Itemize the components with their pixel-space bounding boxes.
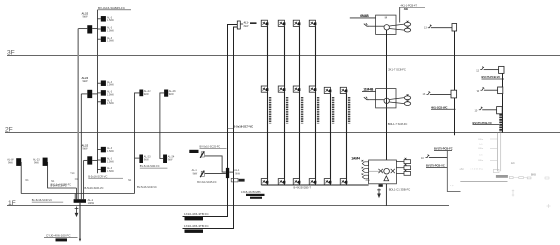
svg-text:BV-5x10-SC25-FC: BV-5x10-SC25-FC	[200, 146, 221, 149]
branch box AL3J-2	[101, 26, 106, 32]
delta symbol	[384, 176, 389, 181]
wire elevator 2	[205, 173, 226, 175]
tap-off square 1F-2	[278, 179, 284, 185]
wire feeder 1F cluster drop	[83, 160, 85, 199]
branch box AL1J-1	[101, 147, 106, 153]
svg-text:BKB: BKB	[531, 173, 536, 176]
tap-off square 3F-3	[293, 20, 299, 26]
tap box R2 c	[497, 107, 503, 114]
x mark out 2	[405, 164, 407, 166]
conduit label riser 3	[301, 97, 303, 124]
svg-text:9kW: 9kW	[34, 162, 40, 165]
branch box AL1J-3	[101, 167, 106, 173]
wire comb a	[74, 194, 76, 200]
faint branch 3	[490, 159, 498, 161]
motor feeder line 11M4B	[362, 90, 376, 92]
wire comb b	[75, 188, 77, 199]
conduit label riser 6	[348, 97, 350, 124]
svg-text:BV175-PCB-VC: BV175-PCB-VC	[482, 75, 501, 79]
wire AL-W drop	[20, 162, 22, 194]
svg-text:9kW: 9kW	[193, 173, 198, 175]
faint cross b	[547, 204, 551, 208]
wire AL2J to bus	[92, 93, 97, 95]
branch box AL1J-2	[101, 157, 106, 163]
svg-text:1.5kW: 1.5kW	[107, 160, 115, 163]
wire AL-2J branch to AL-23c	[135, 157, 140, 159]
wire motor out1 6M4B	[389, 24, 404, 26]
wire branch R1 low	[429, 157, 447, 159]
wire stub AL2J-1	[97, 82, 100, 84]
wire label feeder top	[97, 9, 131, 11]
CT bowtie left	[378, 169, 383, 173]
wire PCB riser up	[399, 7, 401, 23]
wire riser pair right	[183, 27, 238, 229]
tap-off square 2F-6	[340, 87, 346, 93]
wire 1AM4 right 3	[396, 172, 404, 174]
svg-text:BV-3x16-SGB45-FC: BV-3x16-SGB45-FC	[98, 6, 126, 10]
svg-text:YL4: YL4	[70, 173, 75, 175]
feeder symbol 1AM4 left 3	[362, 175, 368, 179]
distribution tap box AL3J	[87, 25, 92, 33]
busway riser 6	[346, 93, 348, 184]
svg-text:1B5a: 1B5a	[478, 160, 484, 162]
wire R1 low drop	[447, 151, 460, 192]
wire feed AL3J	[78, 28, 87, 30]
wire AL1J to bus	[92, 159, 97, 161]
label elevator bold	[189, 150, 198, 153]
svg-text:BDL1-7 SC8-FC: BDL1-7 SC8-FC	[388, 122, 408, 126]
label 9kW blob	[379, 184, 383, 187]
tap-off square 1F-6	[340, 179, 346, 185]
wire trunk riser left	[77, 29, 79, 200]
wire stub AL3J-2	[97, 28, 100, 30]
faint branch 2	[490, 147, 498, 149]
label cabinet blob 2	[185, 230, 204, 233]
x mark out 1	[405, 158, 407, 160]
conduit label R2	[499, 114, 502, 132]
svg-text:BV-5x16-SCR-VC: BV-5x16-SCR-VC	[137, 186, 157, 189]
svg-text:1F: 1F	[8, 200, 16, 207]
faint chain box 1	[509, 176, 513, 178]
breaker hook R1 low	[426, 155, 430, 158]
wire feed AL1J	[84, 159, 88, 161]
svg-text:11M4B: 11M4B	[363, 88, 374, 92]
svg-text:BV-5x10-SCR-FC: BV-5x10-SCR-FC	[140, 165, 160, 168]
wire elevator out	[229, 171, 233, 173]
svg-text:1B5a: 1B5a	[478, 148, 484, 150]
branch box AL2J-2	[101, 90, 106, 96]
svg-text:2K1-7 SC8-FC: 2K1-7 SC8-FC	[388, 68, 406, 72]
breaker hook R1 2F	[427, 91, 431, 94]
wire label tick 2F	[227, 127, 233, 129]
distribution box AL-24	[163, 155, 167, 164]
svg-text:1.5kW: 1.5kW	[107, 150, 115, 153]
wire branch R2 a	[484, 69, 499, 71]
svg-text:1.5kW: 1.5kW	[107, 93, 115, 96]
svg-text:6M4B: 6M4B	[360, 14, 369, 18]
wire stub AL2J-2	[97, 92, 100, 94]
wire breaker-motor 11M4B	[369, 99, 384, 101]
service drop arrowhead	[79, 239, 81, 242]
busway riser 3	[299, 26, 301, 185]
underline 4N1	[431, 108, 456, 110]
svg-text:B-5x16-SC?-VC: B-5x16-SC?-VC	[233, 125, 253, 129]
label incoming cabinet bold	[56, 238, 68, 241]
breaker hook R2 b	[481, 87, 485, 90]
distribution tap box AL2J	[87, 90, 92, 98]
wire motor out1 11M4B	[389, 98, 404, 100]
busway riser 5	[330, 93, 332, 184]
svg-text:1.5kW: 1.5kW	[107, 102, 115, 105]
outgoing device 1	[404, 160, 411, 164]
svg-text:BDL1-C1 3DB-FC: BDL1-C1 3DB-FC	[389, 188, 411, 192]
faint chain box 3	[527, 177, 531, 179]
label fuse dash	[250, 22, 257, 24]
control box 1AM4	[369, 160, 397, 184]
faint chain wire 2	[524, 177, 528, 179]
wire branch bus vertical	[97, 10, 99, 173]
tap-off square 3F-2	[278, 20, 284, 26]
x mark 1 11M4B	[407, 94, 409, 96]
motor circle 6M4B	[384, 25, 389, 30]
meter box small	[231, 178, 238, 182]
wire stub AL3J-3	[97, 38, 100, 40]
wire stub AL1J-2	[97, 159, 100, 161]
svg-text:9kW: 9kW	[235, 173, 240, 175]
wire motor out2 6M4B	[389, 29, 404, 31]
thermal element 1 11M4B	[404, 96, 410, 100]
faint box low	[494, 169, 500, 172]
faint meter box	[496, 175, 508, 178]
wire feed AL2J	[81, 93, 87, 95]
distribution box AL-2K	[164, 90, 168, 97]
floor line 3F	[7, 55, 560, 57]
tap-off square 1F-1	[261, 179, 267, 185]
distribution box AL-W	[16, 158, 21, 166]
underline BV175-VC low	[426, 166, 447, 168]
tap-off square 1F-3	[293, 179, 299, 185]
svg-text:1AM4: 1AM4	[351, 157, 360, 161]
faint cross a	[512, 190, 514, 197]
faint chain wire 1	[513, 177, 519, 179]
svg-text:1.5kW: 1.5kW	[107, 29, 115, 32]
busway riser 2	[284, 26, 286, 185]
svg-text:1.5kW: 1.5kW	[107, 40, 115, 43]
tap-off square 2F-2	[278, 86, 284, 92]
conduit label riser 5	[332, 97, 334, 124]
x mark 2 11M4B	[407, 100, 409, 102]
underline under-cluster label	[88, 177, 123, 179]
motor box 6M4B	[376, 15, 396, 34]
wire AL-2J feed drop	[135, 93, 140, 194]
svg-text:1B5a: 1B5a	[478, 139, 484, 141]
svg-text:BV175-PCB-FC: BV175-PCB-FC	[434, 147, 453, 151]
wire elevator 1	[205, 156, 226, 172]
branch box AL3J-3	[101, 36, 106, 42]
underline BV-50A	[140, 167, 168, 169]
svg-text:9kW: 9kW	[144, 158, 150, 161]
outgoing device 3	[404, 172, 411, 176]
wire stub AL3J-1	[97, 18, 100, 20]
wire feeder 2F cluster drop	[80, 94, 82, 199]
x mark 1 6M4B	[407, 21, 409, 23]
branch box AL2J-3	[101, 99, 106, 105]
underline BV175 a	[482, 78, 505, 80]
floor line 1F	[7, 205, 449, 207]
svg-text:8kW: 8kW	[244, 25, 250, 28]
svg-text:AW: AW	[404, 8, 409, 11]
svg-text:1.5kW: 1.5kW	[107, 84, 115, 87]
svg-text:9kW: 9kW	[83, 80, 89, 83]
svg-text:1X10-4X6-3TB FC: 1X10-4X6-3TB FC	[184, 212, 210, 216]
conduit label riser 2	[286, 97, 288, 124]
riser R1	[454, 31, 456, 135]
busway riser 4	[315, 26, 317, 185]
faint chain box 4	[545, 177, 549, 179]
floor line 2F	[5, 132, 560, 134]
x mark out 3	[405, 170, 407, 172]
tap-off square 2F-1	[261, 86, 267, 92]
thermal element 2 11M4B	[404, 102, 410, 106]
outgoing device 2	[404, 166, 411, 170]
wire riser pair left	[183, 25, 238, 217]
tap-off square 1F-5	[324, 179, 330, 185]
breaker hook R2 a	[480, 67, 484, 70]
svg-text:9kW: 9kW	[144, 93, 150, 96]
svg-text:CYJ0-4X6-100 FC: CYJ0-4X6-100 FC	[46, 234, 71, 238]
wire stub AL1J-1	[97, 149, 100, 151]
svg-text:3F: 3F	[7, 50, 15, 57]
tap-off square 2F-4	[309, 86, 315, 92]
svg-text:4N1-SC8-WC: 4N1-SC8-WC	[431, 106, 447, 110]
meter circle 1AM4	[384, 168, 390, 174]
label riser cabinet row2	[246, 194, 265, 196]
faint bus line	[460, 181, 507, 183]
conduit label riser 1	[269, 97, 271, 124]
svg-text:9kW: 9kW	[169, 93, 175, 96]
breaker left 6M4B	[364, 23, 370, 26]
fuse symbol F1	[237, 21, 240, 29]
wire bottom collector	[262, 184, 369, 186]
feeder symbol 1AM4 left 2	[362, 169, 368, 173]
faint riser b	[500, 133, 502, 171]
svg-text:1.5kW: 1.5kW	[107, 170, 115, 173]
CT bowtie right	[391, 169, 395, 173]
distribution tap box AL1J	[87, 156, 92, 164]
svg-text:1X1B-4X25X2B5: 1X1B-4X25X2B5	[241, 190, 261, 194]
thermal element 1 6M4B	[404, 22, 410, 26]
svg-text:10kW: 10kW	[88, 202, 95, 205]
underline elevator feed	[200, 148, 227, 150]
wire 1AM4 inner	[369, 170, 384, 172]
wire 1AM4 right 2	[396, 167, 404, 169]
busway riser 1	[267, 26, 269, 185]
meter label dark	[239, 179, 245, 182]
wire AL-2K feed drop	[160, 93, 164, 159]
breaker slash 2	[200, 171, 204, 178]
distribution box AL-23	[43, 158, 48, 166]
tap box R1 3F	[452, 24, 457, 32]
tap-off square 3F-1	[261, 20, 267, 26]
svg-text:AL-1: AL-1	[192, 169, 198, 172]
svg-text:BV175-PCB-VC: BV175-PCB-VC	[473, 121, 492, 125]
faint branch 1	[490, 138, 498, 140]
junction bar elevator	[226, 168, 229, 178]
motor box 11M4B	[376, 89, 396, 108]
svg-text:12n: 12n	[511, 162, 516, 165]
svg-text:2F: 2F	[5, 127, 13, 134]
tap-off square 2F-5	[324, 87, 330, 93]
svg-text:Bx-5x16-SCR-VC: Bx-5x16-SCR-VC	[32, 198, 52, 202]
tap box R2 b	[498, 87, 503, 94]
svg-text:BV-3x4-SC25-FC: BV-3x4-SC25-FC	[197, 181, 217, 184]
tap-off square 1F-4	[309, 179, 315, 185]
svg-text:1X10-4X6-3TB FC: 1X10-4X6-3TB FC	[184, 224, 210, 228]
riser R2	[502, 67, 504, 133]
wire 1AM4 down	[385, 184, 387, 206]
x mark 2 6M4B	[407, 27, 409, 29]
distribution box AL-23c	[139, 155, 143, 164]
breaker slash 1	[200, 151, 204, 158]
svg-text:B-4X25X2B5-T: B-4X25X2B5-T	[294, 186, 312, 190]
wire collector 1F	[21, 193, 134, 195]
motor circle 11M4B	[384, 98, 389, 103]
breaker hook R2 c	[479, 107, 483, 110]
wire branch R2 b	[484, 89, 498, 91]
main distribution bar AL-1	[74, 199, 86, 203]
wire breaker-motor 6M4B	[369, 25, 384, 27]
faint riser a	[497, 133, 499, 171]
wire branch R2 c	[482, 109, 496, 111]
branch box AL2J-1	[101, 80, 106, 86]
wire motor trunk vertical	[386, 30, 388, 160]
thermal element 2 6M4B	[404, 28, 410, 32]
wire AL3J to bus	[92, 28, 97, 30]
feeder symbol 1AM4 left 1	[362, 162, 368, 166]
label riser cabinet row3	[250, 197, 262, 199]
wire service entrance drop	[79, 203, 81, 241]
distribution box AL-2J	[139, 90, 143, 97]
label cabinet blob 1	[185, 217, 204, 220]
svg-text:1.5kW: 1.5kW	[107, 19, 115, 22]
wire fuse right stub	[240, 23, 243, 25]
conduit label riser 4	[317, 97, 319, 124]
svg-text:AL-1: AL-1	[234, 169, 240, 172]
svg-text:B-5x16-SCR-VC: B-5x16-SCR-VC	[85, 186, 104, 190]
tap box R1 2F	[451, 90, 457, 98]
breaker left 11M4B	[364, 97, 370, 100]
wire motor out2 11M4B	[389, 102, 404, 104]
breaker hook R1 3F	[428, 25, 432, 28]
wire 1AM4 right 1	[396, 161, 404, 163]
wire branch R1 2F	[430, 93, 451, 95]
underline BV175 low	[434, 150, 452, 152]
wire stub AL1J-3	[97, 169, 100, 171]
tap box R2 a	[499, 66, 504, 73]
underline CYJ0	[44, 237, 78, 239]
svg-text:9kW: 9kW	[83, 16, 89, 19]
underline Bx label	[32, 201, 63, 203]
svg-text:aBd: aBd	[460, 168, 465, 171]
underline BV175 c	[473, 124, 500, 126]
wire branch R1 3F	[431, 27, 452, 29]
svg-text:9kW: 9kW	[83, 148, 89, 151]
svg-text:B-5x16-SCR-VC: B-5x16-SCR-VC	[88, 174, 107, 178]
wire AL-23 drop	[48, 162, 77, 188]
svg-text:B-3x4-SCB-FC: B-3x4-SCB-FC	[51, 185, 67, 188]
svg-text:c 1 d e1 f2 g: c 1 d e1 f2 g	[471, 169, 484, 171]
branch box AL3J-1	[101, 16, 106, 22]
svg-text:9kW: 9kW	[8, 162, 14, 165]
motor feeder line 6M4B	[350, 17, 376, 19]
ground symbol 1AM4	[377, 189, 381, 194]
svg-text:BV175-PCB-VC: BV175-PCB-VC	[426, 164, 445, 168]
ground arrow symbol	[75, 207, 79, 214]
faint chain box 2	[519, 177, 524, 179]
tap-off square 3F-4	[309, 20, 315, 26]
svg-text:9kW: 9kW	[168, 158, 174, 161]
underline 4K1 label	[400, 6, 425, 8]
tap-off square 2F-3	[293, 86, 299, 92]
wire stub AL2J-3	[97, 101, 100, 103]
